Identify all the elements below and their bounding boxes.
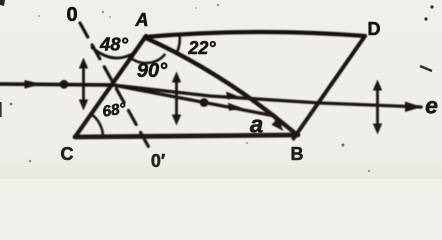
e-ray exit arrowhead [405,102,422,113]
svg-text:e: e [425,93,438,119]
svg-text:0: 0 [66,4,77,26]
diagonal cut A-B [146,38,296,134]
o-ray reflected arrowhead [272,118,284,131]
dot on o-ray [200,98,209,107]
o-ray reflected segment [273,115,280,126]
svg-text:48°: 48° [99,34,129,55]
polarization double arrow (inside) [172,72,181,126]
svg-text:a: a [250,112,263,139]
arc 90 deg at A [130,55,165,63]
polarization double arrow (right) [373,80,382,135]
o-ray mid arrowhead [228,103,244,111]
edge A-D (top face) [145,32,365,37]
incident ray arrowhead [25,80,43,89]
optic axis O-O' (dashed) [80,23,152,153]
dot on incident ray [60,80,69,89]
svg-text:B: B [291,144,304,164]
edge C-A (entrance face) [75,36,146,137]
svg-text:22°: 22° [187,38,216,58]
e-ray mid arrowhead [226,92,242,100]
svg-text:A: A [135,10,149,30]
e-ray [113,85,421,107]
incident ray [0,84,113,85]
svg-text:0′: 0′ [151,151,165,171]
scan artifacts [0,0,434,172]
edge D-B (exit face) [294,36,366,139]
o-ray [113,85,275,116]
edge C-B (bottom face) [75,135,298,137]
arc 68 deg at C [91,114,103,137]
arc 48 deg at P [92,48,136,59]
svg-text:D: D [368,19,381,39]
arc 22 deg at A [177,35,180,54]
svg-text:C: C [61,144,74,164]
svg-text:90°: 90° [137,60,168,82]
polarization double arrow (left) [79,58,88,111]
